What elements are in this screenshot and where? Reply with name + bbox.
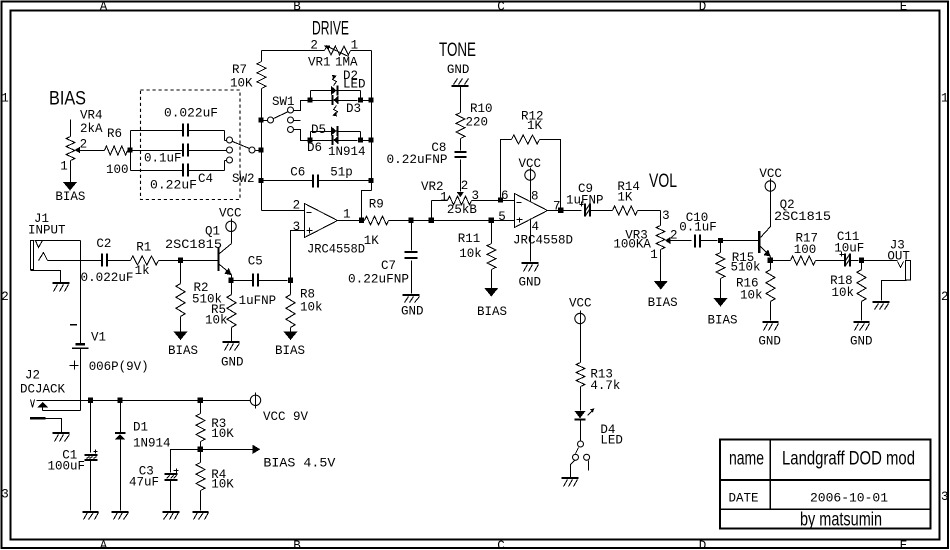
potentiometer VR4 2kA [60,109,103,183]
junction op1 output node [359,218,364,223]
resistor R3 10K [196,401,234,450]
resistor R7 10K [230,51,266,119]
svg-text:BIAS 4.5V: BIAS 4.5V [263,456,336,470]
svg-text:BIAS: BIAS [49,89,86,110]
node BIAS (R11) [477,288,507,319]
svg-text:C5: C5 [248,255,263,269]
svg-text:GND: GND [447,63,470,77]
svg-text:DATE: DATE [729,492,759,506]
svg-text:10k: 10k [205,313,228,327]
diode D1 1N914 [115,401,171,511]
svg-text:C4: C4 [198,172,213,186]
capacitor 0.022uF (top of bank) [131,106,227,140]
svg-text:2: 2 [941,290,949,304]
svg-text:JRC4558D: JRC4558D [513,234,573,248]
svg-text:220: 220 [466,116,489,130]
svg-text:2kA: 2kA [80,122,103,136]
svg-text:1: 1 [60,160,68,174]
transistor Q2 2SC1815 [759,192,831,257]
svg-text:C6: C6 [290,166,305,180]
svg-text:E: E [900,0,908,14]
svg-text:100: 100 [106,163,129,177]
svg-text:2: 2 [310,39,318,53]
svg-text:2: 2 [461,179,469,193]
svg-text:BIAS: BIAS [168,344,198,358]
svg-text:by matsumin: by matsumin [800,510,882,531]
svg-text:4.7k: 4.7k [590,379,620,393]
capacitor 0.1uF (middle of bank) [131,144,227,166]
resistor R11 10k [458,221,496,289]
svg-text:100uF: 100uF [48,459,86,473]
wire op2 pin4 to ground [530,219,532,262]
wire R6 to cap bank [128,150,131,152]
diode D5 (silicon pair top) [307,123,360,143]
op-amp U1B JRC4558D [498,189,573,247]
svg-text:BIAS: BIAS [55,190,85,204]
svg-text:0.22uFNP: 0.22uFNP [387,153,448,167]
resistor R16 10k [736,261,775,321]
svg-text:LED: LED [343,78,366,92]
junction C10 / R15 [718,238,723,243]
node BIAS 4.5V [201,445,336,471]
svg-text:Landgraff DOD mod: Landgraff DOD mod [782,449,915,470]
svg-text:1N914: 1N914 [328,145,366,159]
svg-text:VR4: VR4 [80,109,103,123]
diode D3 (clipping pair bottom) [311,95,362,116]
resistor R15 510k [716,241,761,299]
svg-text:006P(9V): 006P(9V) [89,360,149,374]
svg-text:A: A [100,539,108,550]
svg-text:0.1uF: 0.1uF [679,221,717,235]
svg-text:1: 1 [650,248,658,262]
wire SW1 bottom throw to diode pair [294,130,308,141]
wire to op2 inverting input [501,200,515,202]
junction rail at C6 [368,178,373,183]
svg-text:51p: 51p [330,165,353,179]
svg-text:3: 3 [293,220,301,234]
capacitor C5 1uFNP [232,255,288,309]
svg-text:10k: 10k [300,301,323,315]
power VCC (Q1) [219,207,242,235]
node BIAS (R15) [708,298,738,328]
svg-text:VCC: VCC [219,207,242,221]
resistor R4 10K [196,450,234,511]
node BIAS (VR4 bottom) [55,182,85,204]
svg-text:2: 2 [80,138,88,152]
rotary switch SW2 [227,137,259,186]
svg-text:2: 2 [670,229,678,243]
svg-text:1MA: 1MA [335,56,358,70]
junction C1 tap [88,398,93,403]
potentiometer VR3 100KA [613,209,691,282]
svg-text:VCC 9V: VCC 9V [263,410,309,424]
junction D5/D6 right [358,137,363,142]
svg-text:10K: 10K [211,427,234,441]
power VCC 9V terminal [250,393,308,425]
wire rail jog to opamp output [362,191,372,221]
ground R16 [758,322,781,349]
svg-text:0.1uF: 0.1uF [144,151,182,165]
svg-text:10k: 10k [832,286,855,300]
svg-text:C: C [497,0,505,14]
svg-text:10K: 10K [211,478,234,492]
svg-text:B: B [293,0,301,14]
ground R4 [193,512,209,520]
capacitor C9 1uFNP [566,182,613,217]
svg-text:3: 3 [472,189,480,203]
svg-text:1: 1 [941,92,949,106]
resistor R2 510k [176,261,222,332]
junction Q2 emitter node [770,257,772,261]
resistor R5 10k [205,281,236,342]
output jack J3 OUT [862,239,911,301]
svg-text:2: 2 [293,198,301,212]
ground C7 [401,295,424,318]
svg-text:1: 1 [1,92,9,106]
svg-text:GND: GND [519,276,542,290]
ground LED switch [562,478,579,487]
svg-text:DRIVE: DRIVE [312,19,349,40]
wire feedback rail top left [262,50,325,52]
svg-text:6: 6 [501,189,509,203]
svg-text:1K: 1K [364,234,380,248]
ground J2 [53,433,70,442]
svg-text:C2: C2 [96,237,111,251]
svg-text:8: 8 [531,190,539,204]
wire to rail [361,100,372,102]
diode D6 1N914 (silicon pair bottom) [307,135,366,159]
svg-text:A: A [100,0,108,14]
svg-text:D6: D6 [307,141,322,155]
dc jack J2 DCJACK [20,369,81,433]
junction op2 output [558,208,563,213]
capacitor C3 47uF [129,450,201,511]
junction VR2 pin1 tap [429,218,434,223]
svg-text:10K: 10K [230,77,253,91]
ground R5 [221,342,244,369]
wire C10 to Q2 base [721,240,759,242]
svg-text:DCJACK: DCJACK [20,383,66,397]
LED D2 (clipping pair top) [307,69,365,103]
wire J1 tip to C2 [48,260,102,262]
junction R3/R4 bias divider [198,447,203,452]
ground D1 [112,512,129,520]
svg-text:Q1: Q1 [205,225,220,239]
svg-text:0.22uFNP: 0.22uFNP [348,272,409,286]
title block [720,440,931,531]
svg-text:VCC: VCC [569,297,592,311]
resistor R12 1K (op2 feedback) [501,110,561,208]
transistor Q1 2SC1815 [165,225,232,276]
svg-text:0.22uF: 0.22uF [150,179,197,193]
svg-text:100KA: 100KA [613,238,651,252]
wire inverting input rail [261,121,263,211]
capacitor C7 0.22uFNP [348,221,418,294]
svg-text:0.022uF: 0.022uF [81,271,134,285]
svg-text:R6: R6 [107,127,122,141]
resistor R9 1K [362,198,409,248]
svg-text:SW1: SW1 [272,95,295,109]
capacitor C11 10uF [834,230,864,267]
svg-text:1N914: 1N914 [133,436,171,450]
svg-text:R10: R10 [470,102,493,116]
resistor R18 10k [830,261,866,321]
power VCC (op2 pin8) [519,157,542,202]
svg-text:1K: 1K [617,191,633,205]
wire to rail [361,140,372,142]
resistor R17 100 [771,232,845,266]
wire op2 output [548,210,582,212]
svg-text:10k: 10k [459,247,482,261]
svg-text:510k: 510k [731,260,761,274]
capacitor C4 0.22uF (bottom of bank) [131,161,227,193]
junction D1 tap [117,398,122,403]
ground op2 [519,263,542,290]
wire tone node bus [412,220,515,222]
svg-text:D3: D3 [346,102,361,116]
svg-text:3: 3 [662,209,670,223]
resistor R1 1k [131,241,181,279]
wire SW1 top throw to LED pair [294,101,308,111]
svg-text:2SC1815: 2SC1815 [165,238,222,252]
svg-text:GND: GND [850,335,873,349]
svg-text:100: 100 [794,243,817,257]
capacitor C1 100uF [48,401,98,511]
dashed selection box [141,90,241,200]
toggle switch SW1 [258,95,300,133]
svg-text:2SC1815: 2SC1815 [774,210,831,224]
svg-text:TONE: TONE [439,40,476,61]
wire right feedback rail [371,51,373,191]
resistor R6 100 [80,127,129,177]
svg-text:VCC: VCC [519,157,542,171]
junction C11 / R18 [859,258,864,263]
wire VCC rail [37,400,251,402]
svg-text:GND: GND [401,304,424,318]
input jack J1 [28,212,81,283]
svg-text:0.022uF: 0.022uF [164,106,218,120]
junction R3 tap [198,398,203,403]
op-amp U1A JRC4558D [293,198,365,256]
ground C1 [83,512,99,520]
svg-text:D1: D1 [133,421,148,435]
svg-text:BIAS: BIAS [708,314,738,328]
capacitor C2 0.022uF [81,237,134,285]
power VCC (Q2) [759,167,782,195]
LED D4 [575,409,623,448]
svg-text:C: C [497,539,505,550]
resistor R8 10k [286,281,323,332]
svg-text:V1: V1 [91,331,106,345]
svg-text:D: D [699,539,707,550]
junction R9 / C7 node [408,218,413,223]
svg-text:1uFNP: 1uFNP [566,194,604,208]
svg-text:GND: GND [758,335,781,349]
svg-text:OUT: OUT [887,249,910,263]
svg-text:10uF: 10uF [834,242,864,256]
junction VR2 pin3 / feedback [498,197,503,202]
svg-text:LED: LED [600,434,623,448]
power VCC (LED chain) [569,297,592,327]
capacitor C8 0.22uFNP [387,141,467,192]
junction R11 tap [489,218,494,223]
svg-text:R9: R9 [369,198,384,212]
ground C3 [163,512,180,520]
wire cap bank left bus [130,131,132,171]
svg-text:B: B [293,539,301,550]
resistor R10 220 [456,87,493,151]
svg-text:1K: 1K [527,119,543,133]
wire op1 output [338,220,362,222]
wire to Q1 base [181,260,219,262]
capacitor C6 51p [258,165,371,187]
svg-text:JRC4558D: JRC4558D [307,243,365,257]
node BIAS (R2) [168,332,198,359]
svg-text:10k: 10k [740,289,763,303]
svg-text:J2: J2 [25,369,40,383]
wire J1 switch contact to battery [80,241,82,344]
junction SW2 to feedback rail [258,147,263,152]
svg-text:3: 3 [941,490,949,504]
svg-text:BIAS: BIAS [477,305,507,319]
junction R1 / R2 [178,258,183,263]
svg-text:name: name [729,449,764,470]
svg-text:VR1: VR1 [308,56,331,70]
svg-text:2006-10-01: 2006-10-01 [810,492,888,506]
ground (TONE top) [447,63,470,86]
svg-text:2: 2 [1,290,9,304]
ground R18 [850,322,873,349]
svg-text:1k: 1k [135,264,150,278]
potentiometer VR2 25kB [421,179,501,221]
svg-text:D5: D5 [311,123,326,137]
svg-text:BIAS: BIAS [275,344,305,358]
svg-text:5: 5 [498,210,506,224]
junction D2/D3 right [358,97,363,102]
svg-text:25kB: 25kB [447,203,478,217]
ground J3 [873,302,890,310]
svg-text:1uFNP: 1uFNP [239,294,277,308]
junction Q1 emitter node [231,275,233,281]
svg-text:GND: GND [221,355,244,369]
svg-text:1: 1 [343,207,351,221]
junction rail at LED pair [368,97,373,102]
wire op1 noninverting input [291,231,305,278]
node BIAS (R8) [275,332,305,359]
node BIAS (VR3) [648,281,678,310]
svg-text:D: D [699,0,707,14]
svg-text:INPUT: INPUT [28,223,66,237]
svg-text:R1: R1 [136,241,151,255]
resistor R14 1K [613,180,661,215]
switch (footswitch) for LED [571,441,590,478]
ground J1 [53,283,70,292]
svg-text:VOL: VOL [649,171,677,192]
battery V1 006P(9V) [70,325,149,411]
svg-text:E: E [900,539,908,550]
junction cap-bank left [127,147,132,152]
svg-text:47uF: 47uF [129,475,159,489]
svg-text:R7: R7 [232,63,247,77]
potentiometer VR1 1MA [308,39,358,70]
junction C5 / R8 node [288,278,293,283]
svg-text:C7: C7 [381,259,396,273]
svg-text:4: 4 [532,220,540,234]
resistor R13 4.7k [576,324,620,411]
junction rail at diode pair [368,137,373,142]
capacitor C10 0.1uF [679,211,717,248]
svg-text:SW2: SW2 [232,172,255,186]
wire VR1 to right rail [351,50,372,52]
svg-text:R11: R11 [458,232,481,246]
svg-text:BIAS: BIAS [648,296,678,310]
svg-text:R8: R8 [300,288,315,302]
svg-text:3: 3 [1,487,9,501]
